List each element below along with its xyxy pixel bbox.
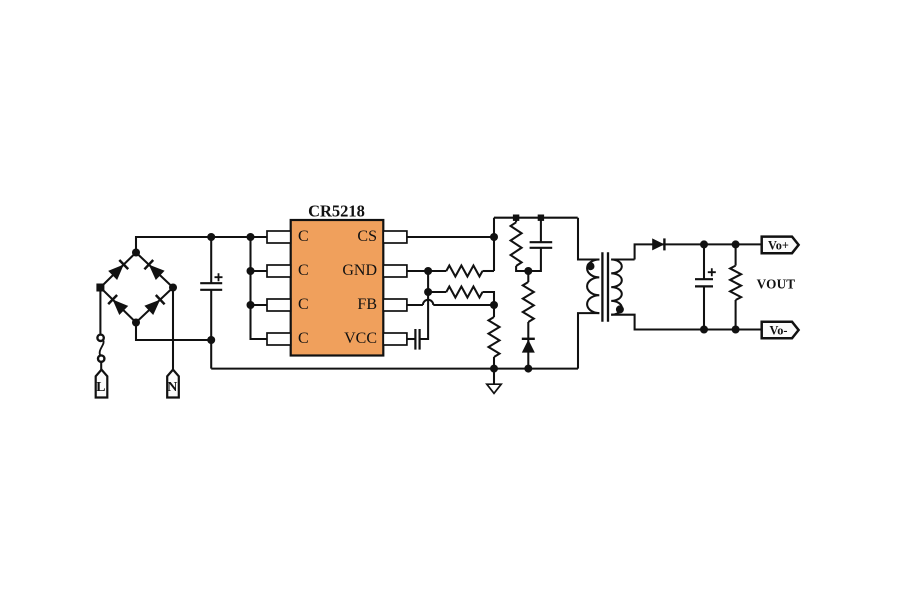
svg-text:C: C xyxy=(298,262,309,279)
svg-text:VOUT: VOUT xyxy=(757,277,796,292)
svg-text:GND: GND xyxy=(342,262,377,279)
svg-text:C: C xyxy=(298,228,309,245)
svg-text:Vo-: Vo- xyxy=(770,324,788,338)
svg-text:C: C xyxy=(298,296,309,313)
svg-text:VCC: VCC xyxy=(344,330,377,347)
svg-text:N: N xyxy=(167,380,177,395)
svg-text:L: L xyxy=(96,380,105,395)
svg-text:FB: FB xyxy=(357,296,377,313)
svg-text:CS: CS xyxy=(357,228,377,245)
svg-text:C: C xyxy=(298,330,309,347)
svg-text:CR5218: CR5218 xyxy=(308,202,365,221)
svg-text:Vo+: Vo+ xyxy=(768,239,789,253)
